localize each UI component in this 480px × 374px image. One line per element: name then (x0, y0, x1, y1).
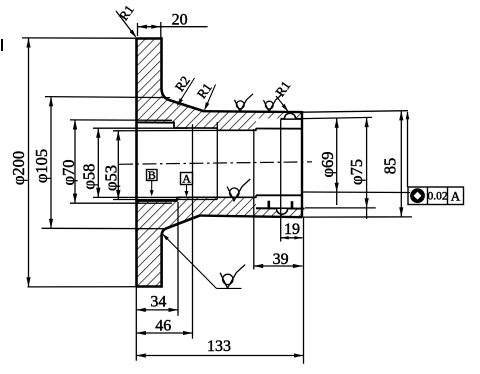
dim phi105 (45, 97, 170, 98)
shaft top line (thread major) (203, 110, 302, 113)
dim phi75 (366, 118, 368, 220)
dim 133 (136, 355, 303, 357)
dim 46 (136, 332, 192, 334)
ext line 46 right x192.5 (192, 124, 194, 339)
label R1 top-left with leader (116, 11, 136, 37)
roughness symbol on shaft top 2 (264, 100, 276, 112)
datum B box with stem (147, 170, 158, 181)
ext line x217 (bore step) (216, 122, 218, 200)
right end face (301, 111, 303, 218)
bore bottom mid (177, 196, 256, 198)
svg-text:85: 85 (380, 158, 399, 175)
svg-text:φ69: φ69 (318, 151, 337, 177)
bore step top x174 (173, 122, 175, 129)
svg-text:R1: R1 (194, 80, 215, 101)
ext line 133 right x303.5 (303, 218, 305, 364)
svg-text:A: A (451, 189, 461, 204)
svg-text:φ70: φ70 (59, 159, 78, 185)
label R1 right with leader (276, 96, 288, 111)
section hatch: lower flange and lower shaft wall (137, 197, 303, 286)
part outline bottom half: flange bottom, R2 fillet, cone, shaft bottom (137, 216, 200, 287)
thread minor line bottom (256, 207, 305, 209)
small tick at left edge (1, 39, 3, 51)
dim phi200 (22, 37, 137, 39)
svg-text:φ53: φ53 (101, 165, 120, 191)
bore bottom phi70 (137, 200, 178, 202)
svg-text:R1: R1 (272, 78, 293, 99)
bore step bottom x256 (255, 195, 257, 198)
dim 39 (254, 265, 303, 267)
dim 85 (400, 111, 402, 217)
ext line 39 left x253.8 (253, 129, 255, 270)
svg-text:φ105: φ105 (32, 149, 51, 183)
bore top phi70 (137, 121, 175, 123)
bore step bottom x177 (176, 197, 178, 202)
bore step top x217 (216, 127, 218, 131)
svg-text:19: 19 (284, 221, 300, 238)
bore top right (256, 128, 302, 130)
dim 34 (136, 309, 178, 311)
svg-text:B: B (148, 168, 156, 182)
svg-text:R1: R1 (116, 2, 137, 23)
roughness symbol below part with leader (163, 234, 217, 288)
label R2 with leader (178, 78, 195, 105)
thread minor line top (groove) (281, 118, 303, 120)
ext line 19 left x280.7 (280, 120, 282, 242)
dim phi69 (336, 118, 338, 205)
dim 19 (281, 237, 303, 239)
ext bottom phi69 (303, 191, 410, 194)
center line (119, 162, 312, 165)
svg-text:46: 46 (155, 318, 171, 335)
roughness symbol on shaft top 1 (235, 100, 247, 112)
dim phi58 (93, 127, 188, 129)
concentricity tolerance frame leader (407, 112, 409, 187)
bore bottom right (256, 194, 302, 196)
svg-text:39: 39 (273, 251, 289, 268)
svg-text:φ75: φ75 (347, 159, 366, 185)
svg-text:φ200: φ200 (9, 151, 28, 185)
dim 20 top (137, 23, 139, 36)
left face ext down (135, 287, 137, 361)
ext bottom 85 (303, 216, 413, 218)
ext top 85 (303, 111, 409, 113)
roughness symbol in bore (bottom) (227, 187, 242, 201)
ext top phi69/phi75 (303, 117, 372, 118)
bore step top x256 (255, 128, 257, 131)
white dome on bottom thread line (277, 209, 288, 214)
bore top phi58 (174, 127, 217, 129)
svg-text:20: 20 (172, 12, 188, 29)
svg-text:133: 133 (207, 338, 231, 355)
svg-text:A: A (182, 172, 191, 186)
svg-text:φ58: φ58 (80, 164, 99, 190)
label R1 mid with leader (205, 85, 216, 110)
section hatch: upper flange and upper shaft wall (137, 39, 303, 131)
dim phi70 (70, 119, 172, 121)
part outline top half: left face, flange, R2 fillet, cone, shaft top (135, 39, 138, 287)
ext line 34 right x178 (177, 202, 179, 316)
dim phi53 (113, 129, 230, 131)
white dome on top thread line (285, 113, 296, 118)
bore top mid (217, 129, 256, 131)
svg-text:0.02: 0.02 (427, 191, 447, 203)
datum A box with stem (181, 173, 193, 185)
svg-text:34: 34 (150, 294, 166, 311)
concentricity tolerance frame (408, 187, 464, 205)
svg-text:R2: R2 (172, 73, 193, 94)
ext bottom phi75 (305, 207, 376, 209)
small marks on bottom thread line (267, 201, 270, 208)
